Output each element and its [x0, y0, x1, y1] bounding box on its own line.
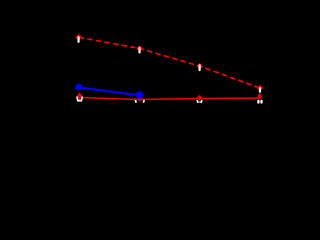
solid red series line	[80, 98, 260, 100]
marker P4 (dashed series)	[257, 85, 263, 93]
marker B1 (blue pentagon-ish marker)	[76, 84, 82, 90]
marker S1 (solid series: red diamond + white lower star points)	[77, 92, 83, 101]
marker P2 (dashed series)	[136, 45, 143, 53]
dashed red series line	[79, 37, 260, 88]
marker S3 (solid series)	[197, 95, 203, 103]
blue series line	[79, 87, 140, 95]
marker P1 (dashed series, red diamond + white error bar)	[75, 34, 81, 43]
marker S2 (solid series, mostly hidden behind blue circle)	[135, 95, 144, 103]
marker S4 (solid series)	[257, 93, 262, 104]
marker P3 (dashed series)	[197, 63, 203, 71]
marker B2 (blue circle)	[136, 91, 143, 98]
